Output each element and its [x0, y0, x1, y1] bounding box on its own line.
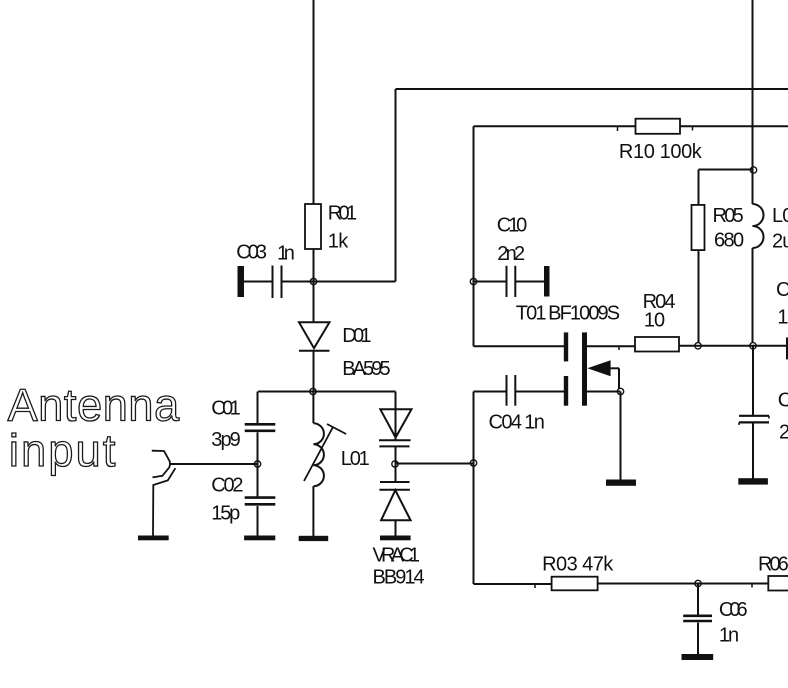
transistor T01 substrate arrow	[587, 360, 610, 376]
svg-text:R10 100k: R10 100k	[619, 141, 703, 163]
svg-text:L01: L01	[341, 448, 370, 470]
svg-text:3p9: 3p9	[211, 429, 241, 451]
resistor R06	[768, 576, 788, 591]
svg-text:C05: C05	[778, 390, 788, 412]
wire antenna to node	[170, 463, 258, 465]
varicap VRAC1 top diode	[380, 409, 411, 437]
node R05 bottom	[695, 343, 701, 349]
svg-text:2n2: 2n2	[497, 243, 525, 265]
resistor R03	[552, 577, 598, 591]
wire gate1 row y=391.5	[474, 391, 506, 393]
ground C02	[244, 536, 275, 541]
resistor R10	[636, 119, 681, 134]
label Antenna input	[8, 380, 180, 477]
wire R03 to node	[598, 583, 698, 585]
svg-text:15p: 15p	[211, 503, 240, 525]
svg-text:10: 10	[644, 310, 665, 332]
wire drain row y=346.3	[587, 345, 635, 347]
node C10 junction	[470, 278, 476, 284]
svg-text:1n: 1n	[719, 625, 739, 647]
svg-text:C07: C07	[776, 279, 788, 301]
wire riser x=395.5 to top bus	[395, 89, 397, 282]
varicap VRAC1 bottom diode	[380, 481, 410, 483]
svg-text:1n: 1n	[277, 243, 295, 265]
node C03 junction	[310, 278, 316, 284]
wire L02 column	[752, 170, 754, 204]
wire C04 branch up	[473, 392, 475, 464]
capacitor C04	[506, 375, 508, 406]
pin tick R03 left	[534, 584, 536, 588]
svg-text:Antenna: Antenna	[8, 380, 180, 431]
wire to right edge cap	[753, 345, 786, 347]
svg-text:2n2: 2n2	[779, 422, 788, 444]
svg-text:C10: C10	[497, 214, 527, 236]
capacitor C06	[683, 614, 712, 617]
pin tick R10 left	[617, 126, 619, 131]
wire R04 to node	[679, 345, 698, 347]
inductor L02	[753, 204, 764, 248]
svg-text:BB914: BB914	[373, 566, 425, 588]
wire down to R03 row	[473, 463, 475, 584]
wire L02 node down to cap	[752, 346, 754, 416]
svg-text:1k: 1k	[328, 231, 350, 253]
wire C06 drop	[697, 584, 699, 615]
svg-text:1n: 1n	[777, 307, 788, 329]
svg-text:R03 47k: R03 47k	[542, 554, 614, 576]
wire node to L02 node	[698, 345, 753, 347]
node L02 bottom	[750, 343, 756, 349]
wire R10 bus y=126.3	[474, 125, 636, 127]
wire source to ground	[620, 392, 622, 481]
svg-text:C06: C06	[719, 599, 748, 621]
node R03/C06/R06	[695, 580, 701, 586]
svg-text:L02: L02	[772, 205, 788, 227]
capacitor C02	[257, 464, 259, 497]
svg-text:C01: C01	[211, 398, 241, 420]
svg-text:C03: C03	[236, 242, 267, 264]
wire varicap drop x=395.5	[395, 392, 397, 441]
transistor T01 channel bar	[582, 332, 587, 405]
wire right vertical x=752.5 top	[752, 0, 754, 170]
wire R01 bottom to D01	[313, 249, 315, 323]
pin tick drain	[618, 346, 620, 350]
wire C10 branch vertical x=473.5	[473, 126, 475, 346]
node L02 top	[750, 167, 756, 173]
wire R05 link row y=169.5	[699, 169, 754, 171]
ground C06	[682, 654, 714, 660]
wire top bus y=89	[396, 88, 788, 90]
transistor T01 gate bars	[564, 332, 568, 361]
antenna input connector	[152, 451, 170, 478]
pin tick R10 right	[692, 126, 694, 130]
svg-text:T01 BF1009S: T01 BF1009S	[516, 302, 620, 324]
ground varicap	[380, 536, 411, 541]
pin tick R06 left	[751, 584, 753, 588]
capacitor C right edge	[739, 415, 769, 417]
wire tank row y=391.5	[258, 391, 396, 393]
wire source row	[587, 391, 621, 393]
node D01 anode junction	[310, 388, 316, 394]
node C04 branch	[470, 460, 476, 466]
ground T01	[606, 480, 636, 486]
node T01 source	[617, 388, 623, 394]
svg-text:BA595: BA595	[342, 358, 390, 380]
resistor R05	[692, 205, 705, 250]
wire varicap to C04 branch y=463.5	[395, 463, 474, 465]
wire top feed vertical at x=313.5	[313, 0, 315, 205]
ground right cap	[738, 478, 768, 484]
ground antenna	[138, 536, 169, 541]
svg-text:R01: R01	[328, 203, 357, 225]
svg-text:C02: C02	[211, 475, 243, 497]
svg-text:input: input	[9, 425, 116, 476]
capacitor C01	[257, 392, 259, 424]
wire C10 row y=281.5	[474, 281, 506, 283]
svg-text:R05: R05	[713, 205, 744, 227]
wire gate2 row y=346.3	[474, 345, 565, 347]
inductor L01	[312, 392, 314, 424]
svg-text:680: 680	[714, 230, 744, 252]
svg-text:R06 4: R06 4	[758, 554, 788, 576]
wire node to R06	[698, 583, 768, 585]
node varicap center	[392, 461, 398, 467]
ground L01	[299, 536, 329, 541]
node antenna/C01/C02	[254, 461, 260, 467]
L01 trimmer arrow	[304, 427, 333, 481]
svg-text:VRAC1: VRAC1	[373, 544, 421, 566]
resistor R01	[305, 204, 321, 249]
terminal bar right edge	[786, 337, 788, 359]
svg-text:C04 1n: C04 1n	[489, 412, 545, 434]
svg-text:2u2: 2u2	[772, 231, 788, 253]
wire R05 bottom	[698, 250, 700, 342]
diode D01	[299, 322, 330, 348]
svg-text:D01: D01	[342, 325, 371, 347]
resistor R04	[635, 337, 679, 352]
capacitor C10	[506, 266, 508, 297]
capacitor C03	[238, 266, 245, 297]
wire C03 row y=281.5	[244, 281, 272, 283]
